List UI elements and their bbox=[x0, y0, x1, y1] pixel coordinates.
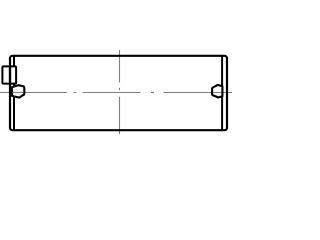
right locating tab bbox=[212, 85, 222, 98]
inner parting-edge line left bbox=[13, 57, 15, 130]
main shell outline rectangle bbox=[10, 56, 227, 130]
centerline visible through left tab bbox=[13, 92, 24, 94]
bearing shell side-view technical drawing bbox=[0, 0, 232, 188]
left locating tab bbox=[12, 85, 24, 97]
locating lug (top-left rectangle) bbox=[2, 66, 16, 83]
horizontal centerline (dash-dot) bbox=[0, 92, 232, 94]
centerline visible through right tab bbox=[213, 92, 222, 94]
vertical centerline (dash-dot) bbox=[119, 50, 121, 134]
left edge line through lug bbox=[9, 66, 11, 85]
inner parting-edge line right bbox=[221, 56, 223, 129]
